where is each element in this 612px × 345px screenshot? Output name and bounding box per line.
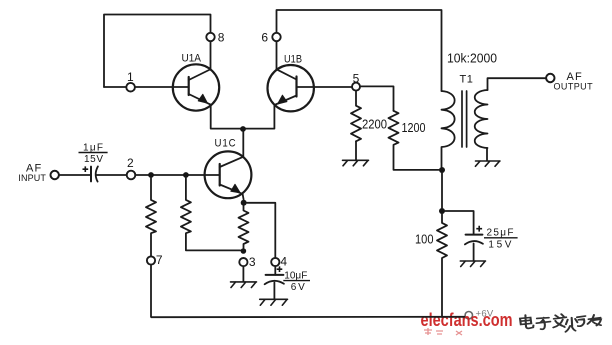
terminal 1 <box>126 83 135 92</box>
wire U1A base lead <box>104 86 189 88</box>
fraction line C1 label <box>79 152 108 154</box>
resistor R3 2200 <box>351 91 361 142</box>
svg-text:OUTPUT: OUTPUT <box>554 82 594 92</box>
terminal 7 <box>147 256 155 264</box>
svg-text:1μF: 1μF <box>83 143 103 154</box>
capacitor C3 25uF plates <box>466 234 483 236</box>
svg-text:5: 5 <box>353 71 360 85</box>
terminal 4 <box>271 258 279 266</box>
char zi <box>536 318 550 330</box>
ground under capacitor C2 <box>260 299 288 305</box>
transformer T1 primary coil <box>442 91 455 167</box>
wire terminal4 to capacitor C2 <box>274 266 276 275</box>
wire terminal7 down to bottom rail <box>150 265 152 317</box>
plus sign C1 <box>83 166 89 172</box>
wire top rail from pin6 to transformer primary <box>277 10 442 91</box>
wire transformer secondary bottom to ground <box>486 148 488 161</box>
wire primary bottom node down <box>441 173 443 207</box>
transistor U1B <box>268 65 314 111</box>
wire 2200 resistor to ground <box>355 141 357 160</box>
svg-text:T1: T1 <box>460 73 474 85</box>
node input 2b <box>183 172 189 178</box>
ground under terminal 3 <box>231 282 257 288</box>
terminal +6V faint <box>465 312 472 319</box>
transformer T1 secondary coil <box>475 90 488 148</box>
svg-text:15V: 15V <box>488 240 511 251</box>
svg-text:100: 100 <box>415 231 434 246</box>
wire bottom rail <box>151 316 465 318</box>
svg-text:10μF: 10μF <box>284 270 307 281</box>
resistor R6 U1C emitter <box>239 206 249 248</box>
svg-text:2: 2 <box>127 156 134 170</box>
wire input terminal to capacitor C1 <box>59 174 91 176</box>
resistor R5 100 <box>437 214 447 317</box>
svg-text:U1C: U1C <box>215 138 237 150</box>
transformer T1 core <box>462 91 467 147</box>
capacitor C2 10uF plates <box>266 274 284 276</box>
svg-text:1: 1 <box>127 70 134 84</box>
terminal 2 <box>127 171 136 180</box>
node input 2a <box>148 172 154 178</box>
svg-text:6V: 6V <box>291 282 305 293</box>
wire pin6 to U1B collector <box>276 41 278 69</box>
svg-text:U1A: U1A <box>182 53 202 65</box>
char dian <box>520 315 533 328</box>
ground under transformer secondary <box>475 161 500 166</box>
wire R100 node to capacitor C3 <box>445 211 473 234</box>
resistor R4 1200 <box>389 111 439 170</box>
wire C3 to ground <box>473 244 475 261</box>
terminal AF input <box>51 171 59 179</box>
watermark small red fragments <box>424 328 462 335</box>
terminal 3 <box>239 258 247 266</box>
wire U1B emitter down to common node <box>243 105 274 129</box>
ground under capacitor C3 <box>460 261 485 267</box>
resistor R1 input shunt <box>146 178 156 256</box>
wire pin8 to U1A collector <box>210 41 212 69</box>
wire terminal5 to 1200 resistor <box>360 86 394 110</box>
char you <box>588 315 601 326</box>
svg-text:1200: 1200 <box>402 120 426 135</box>
node common emitters <box>240 126 246 132</box>
wire transformer secondary to output terminal <box>488 78 547 90</box>
wire U1C emitter node to terminal 4 <box>247 203 275 258</box>
wire C1 to terminal 2 <box>96 174 127 176</box>
transistor U1A <box>173 64 219 110</box>
node R100 top <box>439 208 445 214</box>
wire U1C collector to common node <box>242 132 244 156</box>
wire C2 to ground <box>273 283 275 299</box>
svg-text:6: 6 <box>261 30 268 44</box>
svg-text:3: 3 <box>249 255 256 269</box>
ground under 2200 <box>343 160 369 166</box>
terminal 6 <box>272 33 280 41</box>
svg-text:INPUT: INPUT <box>18 173 46 183</box>
plus sign C3 <box>476 226 482 232</box>
capacitor C1 1uF plates <box>90 167 92 182</box>
node above terminal 3 <box>241 248 247 254</box>
char shao <box>566 316 586 332</box>
node U1C emitter <box>241 200 247 206</box>
svg-text:4: 4 <box>280 255 287 269</box>
node transformer primary bottom <box>439 167 445 173</box>
watermark chinese characters <box>520 314 601 332</box>
wire terminal3 to ground <box>242 266 244 282</box>
terminal 5 <box>352 83 360 91</box>
wire terminal2 to U1C base <box>135 174 219 176</box>
resistor R2 base bias <box>181 178 240 250</box>
svg-text:2200: 2200 <box>362 117 387 132</box>
fraction line C3 label <box>484 237 518 239</box>
svg-text:8: 8 <box>218 30 225 44</box>
transistor U1C <box>205 151 252 199</box>
svg-text:15V: 15V <box>84 154 103 165</box>
wire U1A emitter down to common node <box>211 105 243 129</box>
svg-text:U1B: U1B <box>284 53 302 65</box>
svg-text:25μF: 25μF <box>487 228 514 239</box>
svg-text:7: 7 <box>156 253 163 267</box>
svg-text:10k:2000: 10k:2000 <box>447 52 497 66</box>
wire top-left feedback loop <box>104 15 211 88</box>
wire U1B base lead <box>297 86 353 88</box>
terminal 8 <box>206 33 214 41</box>
fraction line C2 label <box>283 280 310 282</box>
char fa <box>553 314 566 327</box>
plus sign C2 <box>277 266 283 272</box>
terminal AF output <box>546 74 554 82</box>
svg-text:elecfans.com: elecfans.com <box>421 310 513 330</box>
